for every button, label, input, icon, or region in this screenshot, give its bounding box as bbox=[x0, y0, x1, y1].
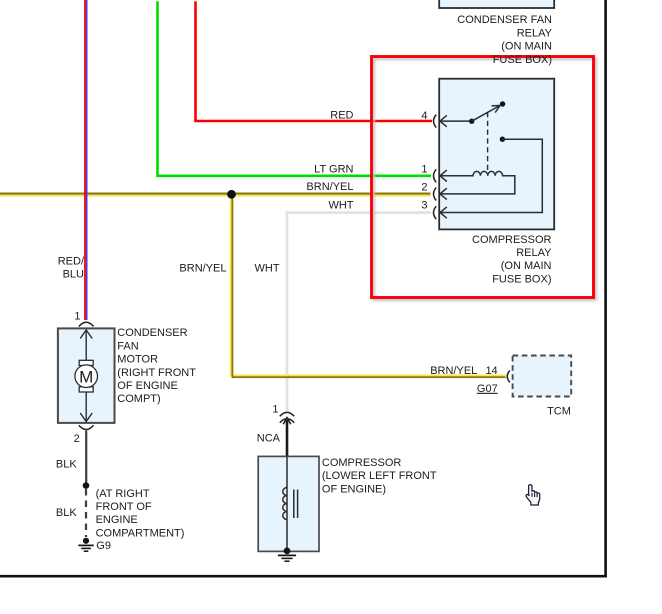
motor pin 1 connector arc bbox=[79, 322, 94, 326]
wire RED (vertical then right to relay pin 4) bbox=[196, 1, 433, 121]
svg-text:(LOWER LEFT FRONT: (LOWER LEFT FRONT bbox=[322, 470, 437, 482]
wire BRN/YEL branch (junction down then right to TCM pin 14) bbox=[231, 196, 506, 377]
svg-text:COMPRESSOR: COMPRESSOR bbox=[472, 234, 552, 246]
svg-text:MOTOR: MOTOR bbox=[117, 354, 158, 366]
compressor connector arc male bbox=[280, 419, 294, 423]
motor circle M bbox=[75, 365, 98, 388]
wire RED/BLU vertical (to condenser fan motor pin 1) bbox=[85, 0, 87, 320]
condenser fan relay box (partial, top) bbox=[439, 0, 554, 8]
svg-text:CONDENSER FAN: CONDENSER FAN bbox=[457, 14, 552, 26]
svg-text:FAN: FAN bbox=[117, 340, 138, 352]
red highlight box bbox=[372, 57, 594, 298]
wire BLK dashed (to ground G9) bbox=[85, 489, 87, 537]
svg-text:TCM: TCM bbox=[547, 405, 571, 417]
compressor coil core lines bbox=[293, 490, 295, 519]
relay pin 3 bracket bbox=[434, 206, 437, 219]
svg-text:RELAY: RELAY bbox=[517, 27, 553, 39]
svg-text:1: 1 bbox=[421, 163, 427, 175]
relay pin 4 bracket bbox=[434, 115, 437, 128]
TCM pin bracket bbox=[507, 371, 510, 383]
svg-text:ENGINE: ENGINE bbox=[96, 514, 138, 526]
motor brush bottom bbox=[79, 387, 93, 392]
svg-text:(RIGHT FRONT: (RIGHT FRONT bbox=[117, 367, 196, 379]
wire BRN/YEL (left edge to relay pin 2) bbox=[0, 194, 431, 196]
TCM box dashed bbox=[513, 356, 572, 397]
motor pin 2 connector arc bbox=[79, 425, 94, 429]
svg-text:BRN/YEL: BRN/YEL bbox=[430, 365, 477, 377]
relay pin 3 arrow bbox=[440, 207, 447, 218]
svg-text:COMPRESSOR: COMPRESSOR bbox=[322, 457, 402, 469]
relay switch NO contact dot (upper) bbox=[500, 101, 505, 106]
svg-text:2: 2 bbox=[421, 181, 427, 193]
frame bottom edge bbox=[0, 575, 607, 578]
svg-text:RELAY: RELAY bbox=[516, 247, 552, 259]
relay stationary contact dot (to pin 3) bbox=[500, 137, 505, 142]
svg-text:RED/: RED/ bbox=[58, 255, 85, 267]
compressor ground dot bbox=[284, 548, 291, 555]
svg-text:LT GRN: LT GRN bbox=[314, 163, 353, 175]
svg-text:(ON MAIN: (ON MAIN bbox=[501, 41, 552, 53]
svg-text:BRN/YEL: BRN/YEL bbox=[179, 263, 226, 275]
svg-text:RED: RED bbox=[330, 110, 353, 122]
ground G9 symbol bbox=[78, 538, 93, 552]
svg-text:BRN/YEL: BRN/YEL bbox=[306, 181, 353, 193]
svg-text:FUSE BOX): FUSE BOX) bbox=[492, 273, 551, 285]
compressor ground symbol bbox=[278, 555, 296, 561]
relay wire contact to right side down to pin 3 bbox=[440, 139, 542, 212]
motor internal wire with arrows bbox=[80, 330, 92, 422]
relay pin 2 bracket bbox=[434, 188, 437, 201]
wire WHT (relay pin 3 left then down to compressor) bbox=[287, 213, 431, 412]
relay pin 1 arrow bbox=[440, 170, 447, 181]
compressor box bbox=[258, 456, 319, 551]
hand cursor bbox=[526, 485, 540, 505]
condenser fan motor box bbox=[58, 328, 115, 423]
svg-text:3: 3 bbox=[421, 200, 427, 212]
svg-text:BLK: BLK bbox=[56, 507, 77, 519]
compressor connector arc female bbox=[280, 412, 294, 416]
relay pin 4 arrow bbox=[440, 115, 472, 126]
svg-text:G9: G9 bbox=[96, 540, 111, 552]
relay pin 2 arrow bbox=[440, 188, 447, 199]
svg-text:2: 2 bbox=[74, 433, 80, 445]
svg-text:WHT: WHT bbox=[328, 199, 353, 211]
svg-text:M: M bbox=[79, 367, 93, 386]
svg-text:G07: G07 bbox=[477, 383, 498, 395]
relay dashed actuator line bbox=[487, 112, 489, 172]
motor brush top bbox=[79, 360, 93, 365]
svg-text:CONDENSER: CONDENSER bbox=[117, 327, 187, 339]
wire BLK compressor with up arrow bbox=[283, 418, 291, 456]
svg-text:(AT RIGHT: (AT RIGHT bbox=[96, 488, 150, 500]
svg-text:NCA: NCA bbox=[257, 432, 281, 444]
svg-text:COMPARTMENT): COMPARTMENT) bbox=[96, 527, 185, 539]
BLK junction dot bbox=[83, 482, 90, 489]
compressor coil bbox=[283, 488, 287, 520]
svg-text:FRONT OF: FRONT OF bbox=[96, 501, 152, 513]
relay switch common dot bbox=[469, 119, 474, 124]
svg-text:BLK: BLK bbox=[56, 458, 77, 470]
svg-text:1: 1 bbox=[272, 403, 278, 415]
compressor relay box bbox=[439, 79, 554, 230]
frame right edge bbox=[604, 0, 607, 578]
svg-text:14: 14 bbox=[485, 365, 497, 377]
svg-text:FUSE BOX): FUSE BOX) bbox=[493, 54, 552, 66]
compressor internal wire bbox=[286, 456, 288, 551]
svg-text:COMPT): COMPT) bbox=[117, 393, 160, 405]
relay switch blade with arrowhead bbox=[472, 106, 500, 122]
wire BLK (motor pin 2 down) bbox=[85, 431, 87, 485]
svg-text:WHT: WHT bbox=[255, 263, 280, 275]
relay pin 1 bracket bbox=[434, 169, 437, 182]
wire LT GRN (vertical then right to relay pin 1) bbox=[158, 1, 431, 176]
svg-text:1: 1 bbox=[74, 310, 80, 322]
svg-text:OF ENGINE): OF ENGINE) bbox=[322, 483, 386, 495]
svg-text:OF ENGINE: OF ENGINE bbox=[117, 380, 178, 392]
relay coil bbox=[440, 171, 515, 194]
svg-text:4: 4 bbox=[421, 110, 427, 122]
svg-text:BLU: BLU bbox=[63, 269, 84, 281]
svg-text:(ON MAIN: (ON MAIN bbox=[501, 260, 552, 272]
junction node (BRN/YEL splice) bbox=[227, 190, 236, 199]
